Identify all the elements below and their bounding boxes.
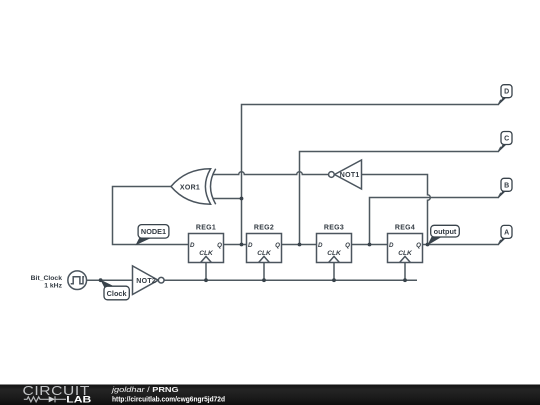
svg-text:jgoldhar / PRNG: jgoldhar / PRNG [111, 385, 179, 394]
D flip-flop REG2 [247, 234, 282, 263]
node: clock rail / REG3 CLK [332, 278, 336, 282]
svg-text:Bit_Clock: Bit_Clock [31, 275, 63, 282]
wire: D rail from node between REG1/REG2 up and right to flag D [242, 100, 501, 245]
wire: REG1 CLK stub [205, 263, 207, 281]
node: clock rail / REG1 CLK [204, 278, 208, 282]
XOR gate XOR1 (pointing left) [171, 169, 216, 204]
svg-text:NOT1: NOT1 [340, 172, 360, 179]
svg-text:REG2: REG2 [254, 225, 274, 232]
node: REG4.Q / output junction [426, 243, 430, 247]
svg-text:CLK: CLK [199, 250, 214, 257]
svg-text:Clock: Clock [107, 289, 128, 298]
svg-text:D: D [190, 242, 195, 249]
node flag NODE1 [136, 225, 169, 246]
svg-text:D: D [389, 242, 394, 249]
logo diode [49, 396, 55, 402]
wire: REG2 Q to REG3 D [282, 244, 317, 246]
wire: XOR1 output left and down to REG1 D input [113, 187, 189, 245]
node: REG3.Q / REG4.D / B-rail junction [368, 243, 372, 247]
svg-text:http://circuitlab.com/cwg6ngr5: http://circuitlab.com/cwg6ngr5jd72d [112, 394, 225, 403]
wire: REG1 Q to REG2 D [224, 244, 247, 246]
D flip-flop REG3 [317, 234, 352, 263]
junction dots [99, 197, 430, 283]
svg-text:REG1: REG1 [196, 225, 216, 232]
svg-text:CLK: CLK [327, 250, 342, 257]
node: REG1.Q / REG2.D / D-rail junction [240, 243, 244, 247]
logo diode bar and wire [55, 396, 66, 402]
node: clock rail / REG4 CLK [403, 278, 407, 282]
svg-text:D: D [318, 242, 323, 249]
svg-text:REG3: REG3 [324, 225, 344, 232]
svg-text:Q: Q [217, 242, 222, 249]
wire: REG3 Q to REG4 D [352, 244, 388, 246]
CircuitLab logo [23, 384, 92, 404]
wire: REG4 CLK stub [404, 263, 406, 281]
svg-text:A: A [504, 229, 509, 236]
svg-text:XOR1: XOR1 [180, 184, 200, 191]
D flip-flop REG4 [388, 234, 423, 263]
svg-text:NODE1: NODE1 [141, 227, 166, 236]
inverter NOT1 (pointing left) [329, 160, 362, 189]
inverter NOT2 (pointing right) [133, 266, 165, 295]
node flag output [427, 225, 459, 245]
wire: B rail from node between REG3/REG4 up and right to flag B [370, 193, 501, 245]
node: clock rail / REG2 CLK [262, 278, 266, 282]
clock source Bit_Clock [68, 271, 87, 290]
footer bar [0, 385, 540, 405]
svg-text:D: D [248, 242, 253, 249]
svg-text:C: C [504, 136, 509, 143]
wire: NOT1 output to XOR1 top input (with hops over verticals) [213, 172, 329, 175]
node flag A [498, 225, 512, 245]
footer text [111, 385, 226, 403]
wire: C rail from node between REG2/REG3 up and right to flag C [300, 147, 501, 245]
wire: REG3 CLK stub [333, 263, 335, 281]
svg-text:CLK: CLK [257, 250, 272, 257]
svg-text:CLK: CLK [398, 250, 413, 257]
node: REG2.Q / REG3.D / C-rail junction [298, 243, 302, 247]
node flag C [498, 132, 512, 153]
svg-text:B: B [504, 182, 509, 189]
svg-text:D: D [504, 89, 509, 96]
wire: REG4 Q up to NOT1 input (with hop over B rail) [362, 175, 431, 245]
node flag Clock [100, 280, 129, 300]
svg-text:Q: Q [416, 242, 421, 249]
node: XOR1 bottom input junction [240, 197, 244, 201]
svg-text:NOT2: NOT2 [136, 278, 156, 285]
svg-text:1 kHz: 1 kHz [44, 282, 62, 289]
node flag B [498, 178, 512, 198]
svg-text:Q: Q [275, 242, 280, 249]
D flip-flop REG1 [189, 234, 224, 263]
svg-text:REG4: REG4 [395, 225, 415, 232]
node: Clock flag junction [99, 278, 103, 282]
node flag D [498, 85, 512, 106]
wire: XOR1 bottom input from node on vertical D wire [213, 198, 242, 200]
logo resistor [24, 397, 49, 402]
wire: clock rail from NOT2 output under registers [164, 279, 417, 281]
wire: REG2 CLK stub [263, 263, 265, 281]
wire: REG4 Q to flag A [423, 240, 501, 245]
svg-text:LAB: LAB [66, 395, 91, 405]
wire: clock source to NOT2 input [87, 279, 133, 281]
label Bit_Clock 1 kHz [31, 275, 63, 289]
svg-text:output: output [434, 227, 457, 236]
svg-text:Q: Q [345, 242, 350, 249]
